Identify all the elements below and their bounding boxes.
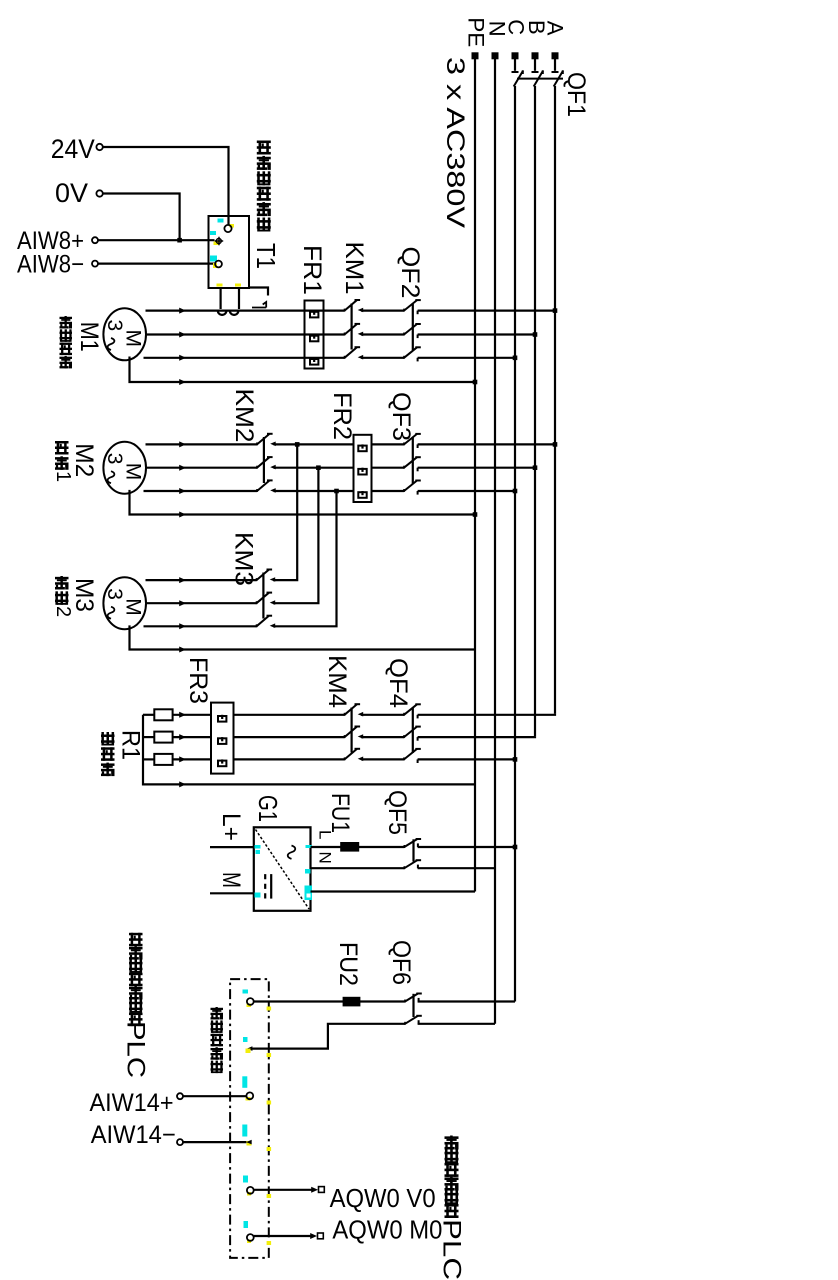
wire QF2 out phase3 to bus C <box>418 357 515 359</box>
QF4 pole1 <box>403 713 405 716</box>
svg-text:M1: M1 <box>75 322 103 352</box>
terminal AIW14+ start <box>177 1093 183 1099</box>
QF3 pole1 <box>403 442 405 445</box>
KM1 pole1 <box>344 309 346 312</box>
QF4 pole2 <box>403 735 405 738</box>
motor M3 chinese label fan2 <box>55 576 69 590</box>
junction 0V-AIW8+ <box>177 238 182 243</box>
wire QF6 out N to bus N end <box>418 1023 495 1025</box>
contactor KM2 linkage <box>263 437 265 483</box>
terminal 0V <box>96 190 102 196</box>
QF5 pole2 <box>403 866 405 869</box>
wire FU1 to QF5 <box>358 846 404 848</box>
heater R1 element1 <box>143 714 154 716</box>
contactor KM3 linkage <box>262 573 264 619</box>
thermal relay FR2 box <box>354 435 372 502</box>
T1 pin mark 1 <box>252 302 266 308</box>
fuse FU1 <box>341 843 358 851</box>
wire M3 PE <box>130 625 476 649</box>
FR1 element phase3 <box>310 359 318 365</box>
current transformer loops <box>218 311 239 315</box>
transmitter T1 box <box>209 216 250 288</box>
junction M2 PE to PE bus <box>473 512 478 517</box>
wire AIW14+ <box>183 1095 246 1097</box>
wire FR2-QF3 phase3 <box>372 490 405 492</box>
svg-text:G1: G1 <box>253 795 283 822</box>
svg-text:PE: PE <box>464 17 489 47</box>
thermal relay FR1 box <box>305 301 324 369</box>
contactor KM1 linkage <box>351 304 353 350</box>
svg-text:KM1: KM1 <box>340 242 368 295</box>
thermal relay FR3 box <box>211 703 234 774</box>
KM4 pole2 <box>344 735 346 738</box>
PLC terminal 1 <box>247 998 254 1005</box>
label valve control PLC chinese <box>445 1136 459 1150</box>
svg-text:QF3: QF3 <box>387 392 415 441</box>
junction M2/M3 phase1 <box>295 442 300 447</box>
svg-text:KM3: KM3 <box>230 532 258 586</box>
wire FR3-KM4 phase3 <box>234 758 345 760</box>
wire QF5 out L to bus C <box>418 846 515 848</box>
wire KM1-QF2 phase3 <box>361 357 404 359</box>
wire C bus top stub <box>514 57 516 71</box>
wire 24V to T1 <box>103 147 229 225</box>
wire KM2-FR2 phase1 <box>274 443 354 445</box>
wire N bus <box>494 57 496 1024</box>
wire KM3 out phase1 riser <box>273 444 297 580</box>
KM3 pole2 <box>256 601 258 604</box>
motor M3 circle <box>103 577 146 629</box>
svg-text:R1: R1 <box>117 730 145 760</box>
KM3 pole3 <box>256 624 258 627</box>
circuit breaker QF5 linkage <box>412 839 414 861</box>
svg-text:QF5: QF5 <box>383 790 411 835</box>
junction M2/M3 phase3 <box>334 489 339 494</box>
svg-text:M3: M3 <box>70 578 98 612</box>
PLC terminal yellow marks <box>246 1004 252 1244</box>
contactor KM4 linkage <box>351 708 353 753</box>
wire M2 phase2 <box>146 467 258 469</box>
wire A bus top stub <box>554 57 556 71</box>
wire M1 phase2 <box>146 333 345 335</box>
wire 0V <box>103 194 180 241</box>
wire M2 phase1 <box>146 443 258 445</box>
supply terminal x=475 <box>472 52 479 59</box>
T1 cyan grip marks <box>210 219 224 262</box>
supply terminal x=495 <box>492 52 499 59</box>
svg-text:FU2: FU2 <box>334 942 362 986</box>
wire QF3 out phase3 to bus C <box>418 490 515 492</box>
PLC terminal AIW14- <box>246 1140 252 1145</box>
wire G1 M <box>210 892 254 894</box>
supply terminal x=535 <box>532 52 539 59</box>
wire FR3-KM4 phase1 <box>234 714 345 716</box>
junction M1 PE to PE bus <box>473 380 478 385</box>
svg-text:QF6: QF6 <box>387 940 415 985</box>
wire M3 phase2 <box>146 602 257 604</box>
PLC terminal AIW14+ <box>246 1092 253 1099</box>
G1 DC symbol <box>270 874 272 899</box>
wire M1 phase3 <box>144 357 345 359</box>
svg-text:N: N <box>316 852 335 864</box>
heater R1 element2 <box>143 736 154 738</box>
svg-text:QF4: QF4 <box>384 658 412 708</box>
wire FR3-KM4 phase2 <box>234 736 345 738</box>
circuit breaker QF1 <box>512 70 564 86</box>
wire KM2-FR2 phase2 <box>274 467 354 469</box>
terminal AIW8- <box>92 261 98 267</box>
wire QF4 out phase1 to bus A end <box>418 713 555 714</box>
svg-text:M: M <box>122 330 145 348</box>
wire AIW8- <box>98 263 215 265</box>
QF4 pole3 <box>403 757 405 760</box>
svg-text:0V: 0V <box>55 178 88 208</box>
FR2 element phase3 <box>358 492 366 498</box>
svg-text:PLC: PLC <box>122 1021 150 1078</box>
wire KM4-QF4 phase2 <box>361 736 404 738</box>
wire QF4 out phase3 to bus C <box>418 758 515 760</box>
circuit breaker QF6 linkage <box>412 994 414 1017</box>
svg-text:24V: 24V <box>51 134 95 164</box>
KM1 pole2 <box>344 333 346 336</box>
G1 diagonal <box>256 830 310 910</box>
svg-text:FR1: FR1 <box>298 245 326 295</box>
G1 AC tilde <box>288 846 296 859</box>
T1 yellow grip marks <box>213 224 241 287</box>
wire G1 N to QF5 <box>311 867 405 869</box>
KM2 pole2 <box>256 466 258 469</box>
svg-text:FU1: FU1 <box>326 793 354 833</box>
KM2 pole3 <box>256 489 258 492</box>
svg-text:AIW14+: AIW14+ <box>90 1089 174 1117</box>
motor M2 text ~ <box>108 471 115 483</box>
power supply G1 box <box>254 827 311 911</box>
wire G1 L+ <box>210 846 254 848</box>
wire AIW14- <box>183 1141 246 1143</box>
svg-text:AIW14−: AIW14− <box>91 1121 176 1149</box>
terminal AIW14- start <box>177 1139 183 1145</box>
wire AQW0 M0 <box>254 1235 311 1237</box>
svg-text:PLC: PLC <box>438 1219 466 1280</box>
wire B bus <box>534 86 536 736</box>
svg-text:KM4: KM4 <box>323 655 351 708</box>
wire QF3 out phase2 to bus B <box>418 467 535 469</box>
wire KM1-QF2 phase2 <box>361 333 404 335</box>
KM4 pole3 <box>344 757 346 760</box>
wire M2 PE <box>130 490 476 515</box>
wire FU2 to QF6 <box>359 1000 405 1002</box>
motor M3 text ~ <box>108 607 115 619</box>
motor M2 circle <box>103 442 146 494</box>
wire M1 PE <box>130 357 476 383</box>
wire QF4 out phase2 to bus B end <box>418 735 535 738</box>
KM1 pole3 <box>344 356 346 359</box>
T1 chinese name <box>257 141 271 155</box>
PLC terminal AQW0 M0 <box>247 1234 254 1241</box>
QF6 pole1 <box>404 1000 406 1003</box>
T1 terminal 24V <box>224 225 231 232</box>
KM4 pole1 <box>344 713 346 716</box>
PLC terminal AQW0 V0 <box>247 1187 254 1194</box>
FR1 element phase2 <box>310 336 318 342</box>
motor M1 chinese label <box>60 316 72 328</box>
svg-text:M2: M2 <box>70 443 98 477</box>
svg-text:3 x AC380V: 3 x AC380V <box>441 57 469 228</box>
wire QF2 out phase2 to bus B <box>418 333 535 335</box>
wire QF5 out N to bus N <box>418 867 495 869</box>
wire M2 phase3 <box>144 490 258 492</box>
wire B bus top stub <box>534 57 536 71</box>
fuse FU2 <box>344 998 360 1006</box>
QF2 pole3 <box>403 356 405 359</box>
PLC chinese valve label <box>211 1007 223 1019</box>
G1 cyan grip marks <box>255 845 313 900</box>
junction M2/M3 phase2 <box>316 465 321 470</box>
svg-text:AQW0 V0: AQW0 V0 <box>330 1183 436 1213</box>
svg-text:M: M <box>217 872 245 888</box>
svg-text:AQW0 M0: AQW0 M0 <box>332 1215 442 1245</box>
wire G1 L to FU1 <box>311 846 342 848</box>
motor M2 chinese label fan1 <box>55 441 69 455</box>
QF3 pole3 <box>403 489 405 492</box>
FR3 element phase2 <box>218 738 226 744</box>
svg-text:QF1: QF1 <box>562 72 590 117</box>
KM2 pole1 <box>256 442 258 445</box>
wire FR2-QF3 phase2 <box>372 467 405 469</box>
QF3 pole2 <box>403 466 405 469</box>
wire KM1-QF2 phase1 <box>361 310 404 312</box>
wire PLC L to FU2 <box>254 1000 344 1002</box>
wire M3 phase1 <box>146 579 257 581</box>
wire QF2 out phase1 to bus A <box>418 310 555 312</box>
svg-text:M: M <box>122 598 145 616</box>
wire FR2-QF3 phase1 <box>372 443 405 445</box>
heater R1 star bar <box>143 715 475 785</box>
wire KM4-QF4 phase3 <box>361 758 404 760</box>
PLC box yellow grip marks <box>267 1007 272 1246</box>
wire QF6 out L to bus C end <box>418 1000 515 1002</box>
wire AIW8+ <box>98 239 215 241</box>
FR2 element phase2 <box>358 469 366 475</box>
circuit breaker QF2 linkage <box>412 304 414 350</box>
wire PLC N riser to QF6 <box>252 1024 405 1049</box>
supply terminal x=555 <box>552 52 559 59</box>
svg-text:L+: L+ <box>217 813 245 841</box>
PLC terminal cyan marks <box>242 990 248 1229</box>
current transformer stubs <box>221 288 239 309</box>
wire KM2-FR2 phase3 <box>274 490 354 492</box>
wire QF3 out phase1 to bus A <box>418 443 555 445</box>
svg-text:T1: T1 <box>251 243 281 269</box>
wire G1 ground to PE bus <box>311 890 476 892</box>
circuit breaker QF4 linkage <box>412 708 414 753</box>
wire AQW0 V0 <box>254 1189 312 1191</box>
wire KM3 out phase2 riser <box>273 468 318 604</box>
svg-text:KM2: KM2 <box>230 389 258 443</box>
svg-text:M: M <box>122 463 145 481</box>
motor M1 text ~ <box>108 338 115 350</box>
PLC N arrow terminal <box>247 1046 253 1051</box>
motor M1 circle <box>103 308 146 360</box>
QF2 pole1 <box>403 309 405 312</box>
KM3 pole1 <box>256 578 258 581</box>
T1 terminal AIW8- <box>215 261 222 268</box>
wire PE bus <box>474 57 476 892</box>
supply terminal x=515 <box>512 52 519 59</box>
T1 terminal AIW8+ <box>215 237 223 245</box>
QF2 pole2 <box>403 333 405 336</box>
FR3 element phase3 <box>218 761 226 767</box>
QF6 pole2 <box>404 1022 406 1025</box>
wire A bus <box>554 86 556 713</box>
terminal AIW8+ <box>92 237 98 243</box>
wire M3 phase3 <box>144 625 257 627</box>
FR2 element phase1 <box>358 446 366 452</box>
heater R1 element3 <box>143 758 154 760</box>
terminal 24V <box>96 144 102 150</box>
FR3 element phase1 <box>218 716 226 722</box>
svg-text:FR2: FR2 <box>328 392 356 440</box>
wire C bus <box>514 86 516 1002</box>
wire KM4-QF4 phase1 <box>361 714 404 716</box>
wire M1 phase1 <box>146 310 345 312</box>
T1 corner lead <box>249 288 268 296</box>
svg-text:QF2: QF2 <box>396 247 424 299</box>
valve PLC dashed box <box>230 979 269 1258</box>
heater R1 chinese label <box>101 732 115 746</box>
svg-text:AIW8−: AIW8− <box>17 251 84 279</box>
QF5 pole1 <box>403 845 405 848</box>
FR1 element phase1 <box>310 312 318 318</box>
circuit breaker QF3 linkage <box>412 438 414 484</box>
label valve feedback PLC chinese <box>129 933 143 947</box>
wire KM3 out phase3 riser <box>273 491 337 626</box>
svg-text:FR3: FR3 <box>184 657 212 704</box>
